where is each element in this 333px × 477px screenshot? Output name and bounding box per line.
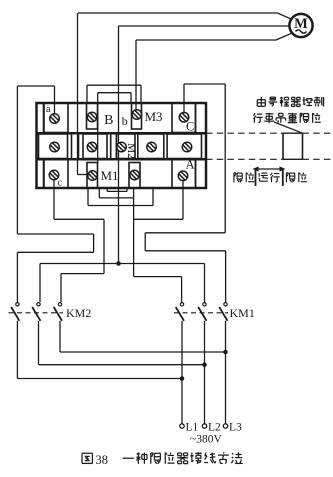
svg-text:KM2: KM2 [66, 306, 91, 320]
svg-text:L3: L3 [229, 422, 242, 434]
svg-text:B: B [104, 113, 113, 128]
svg-text:a: a [46, 104, 51, 115]
svg-text:M1: M1 [101, 168, 119, 183]
svg-text:C: C [186, 120, 194, 134]
svg-text:L2: L2 [208, 422, 221, 434]
svg-text:~380V: ~380V [190, 434, 222, 446]
svg-text:L1: L1 [186, 422, 199, 434]
svg-text:A: A [186, 158, 195, 172]
svg-text:38: 38 [96, 453, 109, 467]
svg-text:c: c [58, 178, 63, 189]
svg-text:M3: M3 [145, 109, 163, 124]
svg-text:M2: M2 [125, 143, 137, 159]
svg-text:KM1: KM1 [230, 306, 255, 320]
svg-text:b: b [122, 114, 128, 128]
svg-text:M: M [294, 16, 308, 32]
